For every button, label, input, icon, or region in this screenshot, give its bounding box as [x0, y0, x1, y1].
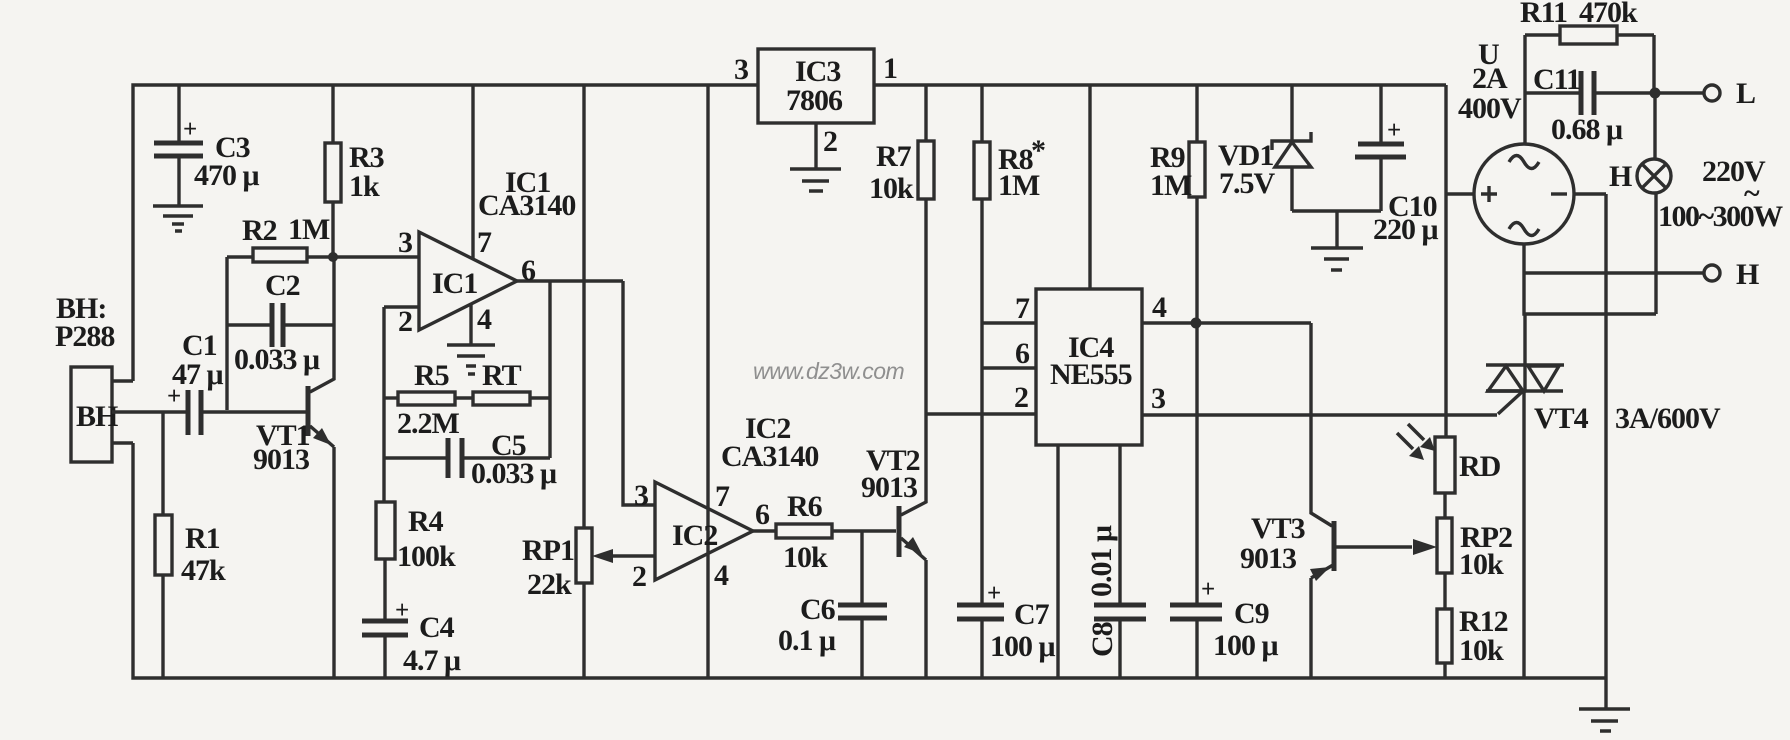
triac VT4 3A/600V — [1486, 314, 1721, 678]
IC1 pin 4 wire — [471, 303, 492, 345]
svg-text:VT3: VT3 — [1251, 512, 1305, 545]
IC IC3 7806 regulator — [734, 49, 897, 158]
IC3 pin 2 wire — [814, 123, 817, 169]
node L junction — [1650, 88, 1661, 99]
IC1 pin 6 output wire — [517, 254, 623, 287]
wire bridge - to neutral column — [1574, 192, 1606, 195]
potentiometer RP1 22k — [522, 85, 592, 678]
svg-text:4: 4 — [477, 303, 492, 336]
svg-text:VT4: VT4 — [1534, 402, 1589, 435]
svg-text:NE555: NE555 — [1050, 358, 1132, 391]
svg-text:3: 3 — [634, 479, 648, 512]
resistor R5 2.2M — [384, 359, 460, 440]
svg-text:R4: R4 — [408, 505, 444, 538]
svg-text:RP1: RP1 — [522, 534, 574, 567]
terminal H — [1524, 258, 1759, 291]
capacitor C11 0.68u — [1525, 63, 1704, 146]
svg-text:C11: C11 — [1533, 63, 1580, 96]
capacitor C4 4.7u — [362, 597, 461, 678]
capacitor C1 47u — [167, 329, 306, 435]
resistor R11 470k — [1520, 0, 1654, 93]
svg-text:100 μ: 100 μ — [990, 630, 1056, 663]
svg-text:7: 7 — [1015, 292, 1030, 325]
svg-text:R1: R1 — [185, 522, 220, 555]
svg-text:1M: 1M — [288, 213, 330, 246]
capacitor C3 470u — [154, 85, 260, 206]
wire feedback right leg — [548, 281, 551, 458]
capacitor C8 0.01u — [1085, 525, 1146, 678]
RP1 wiper arrow wire — [592, 549, 655, 563]
svg-text:C8: C8 — [1086, 622, 1119, 657]
ground IC1 pin4 — [447, 345, 495, 374]
svg-text:0.033 μ: 0.033 μ — [471, 457, 557, 490]
capacitor C10 220u — [1355, 85, 1439, 246]
svg-text:7.5V: 7.5V — [1219, 167, 1276, 200]
svg-text:C9: C9 — [1234, 597, 1269, 630]
svg-text:10k: 10k — [1459, 548, 1504, 581]
svg-text:2: 2 — [632, 560, 646, 593]
photoresistor RD — [1435, 437, 1501, 518]
svg-text:3: 3 — [398, 226, 412, 259]
svg-text:0.01 μ: 0.01 μ — [1085, 525, 1118, 597]
svg-text:R2: R2 — [242, 214, 277, 247]
wire IC2 supply/ground column — [706, 85, 709, 678]
svg-text:1M: 1M — [998, 169, 1040, 202]
svg-text:H: H — [1609, 160, 1632, 193]
svg-text:+: + — [1201, 576, 1214, 603]
ground IC3 — [790, 169, 841, 191]
svg-text:10k: 10k — [1459, 634, 1504, 667]
label IC2 title — [721, 412, 818, 473]
svg-text:3: 3 — [734, 53, 748, 86]
resistor R2 1M — [227, 213, 333, 262]
IC4 pin 4 wire — [1142, 291, 1311, 324]
svg-text:2: 2 — [1014, 381, 1028, 414]
resistor R8* 1M — [974, 85, 1045, 605]
node R2/R3/IC1 junction — [328, 252, 338, 262]
svg-text:4: 4 — [1152, 291, 1167, 324]
svg-text:9013: 9013 — [861, 471, 917, 504]
wire right DC feed column to RD — [1444, 85, 1447, 437]
IC4 pin 6 wire — [982, 337, 1036, 370]
svg-text:RD: RD — [1459, 450, 1501, 483]
svg-text:7806: 7806 — [786, 84, 843, 117]
RP2 wiper arrow from VT3 base — [1334, 539, 1437, 555]
capacitor C2 0.033u — [227, 269, 334, 376]
svg-text:C6: C6 — [800, 593, 836, 626]
svg-text:H: H — [1736, 258, 1759, 291]
capacitor C9 100u — [1170, 576, 1279, 678]
potentiometer RP2 10k — [1437, 518, 1512, 609]
svg-text:4: 4 — [714, 559, 729, 592]
svg-text:3: 3 — [1151, 382, 1165, 415]
svg-text:2: 2 — [398, 305, 412, 338]
terminal L — [1704, 77, 1755, 110]
svg-text:2.2M: 2.2M — [397, 407, 460, 440]
svg-text:1M: 1M — [1150, 169, 1192, 202]
svg-text:www.dz3w.com: www.dz3w.com — [753, 358, 905, 384]
IC2 pin 3 wire from IC1 output — [623, 281, 655, 512]
svg-text:220 μ: 220 μ — [1373, 213, 1439, 246]
resistor R4 100k — [376, 502, 456, 621]
IC1 pin 3 wire — [333, 226, 419, 259]
svg-text:R6: R6 — [787, 490, 823, 523]
svg-text:IC2: IC2 — [672, 519, 717, 552]
svg-text:7: 7 — [715, 480, 730, 513]
capacitor C6 0.1u — [778, 531, 887, 678]
IC4 pin 2 wire — [926, 381, 1036, 414]
svg-text:C4: C4 — [419, 611, 455, 644]
IC1 pin 7 supply wire — [473, 85, 492, 259]
svg-text:10k: 10k — [783, 541, 828, 574]
transistor VT3 9013 — [1240, 323, 1334, 678]
svg-text:1: 1 — [883, 52, 897, 85]
resistor RT — [455, 359, 550, 405]
ground VD1/C10 — [1311, 248, 1363, 270]
wire ground bottom bus — [133, 443, 1606, 678]
svg-text:6: 6 — [1015, 337, 1030, 370]
IC4 pin 8 top wire — [1088, 85, 1091, 289]
resistor R1 47k — [155, 412, 226, 678]
svg-text:0.68 μ: 0.68 μ — [1551, 113, 1623, 146]
wire IC1 feedback left leg — [382, 307, 385, 502]
lamp H — [1609, 93, 1671, 314]
resistor R3 1k — [325, 85, 384, 256]
resistor R9 1M — [1150, 85, 1205, 605]
svg-text:*: * — [1031, 134, 1045, 167]
svg-text:3A/600V: 3A/600V — [1615, 402, 1721, 435]
svg-text:9013: 9013 — [253, 443, 309, 476]
svg-text:9013: 9013 — [1240, 542, 1296, 575]
resistor R12 10k — [1437, 605, 1508, 678]
wire R2/C2 left leg — [225, 257, 228, 410]
wire neutral column — [1604, 194, 1607, 709]
svg-text:2: 2 — [823, 125, 837, 158]
zener diode VD1 7.5V — [1218, 85, 1311, 211]
svg-text:R11: R11 — [1520, 0, 1567, 29]
ground mains right — [1579, 709, 1630, 731]
IC4 pin 3 output wire to triac gate — [1142, 382, 1497, 415]
svg-text:C7: C7 — [1014, 598, 1050, 631]
wire bridge + input — [1446, 192, 1474, 195]
svg-text:CA3140: CA3140 — [478, 189, 575, 222]
svg-text:CA3140: CA3140 — [721, 440, 818, 473]
svg-text:0.1 μ: 0.1 μ — [778, 624, 836, 657]
svg-text:22k: 22k — [527, 568, 572, 601]
svg-text:RT: RT — [482, 359, 522, 392]
svg-text:7: 7 — [477, 226, 492, 259]
wire VD1/C10 common — [1292, 211, 1381, 248]
svg-text:10k: 10k — [869, 172, 914, 205]
svg-text:+: + — [1387, 117, 1400, 144]
svg-text:4.7 μ: 4.7 μ — [403, 644, 461, 677]
svg-text:47k: 47k — [181, 554, 226, 587]
sensor BH P288 — [55, 292, 118, 462]
wire bridge bottom AC — [1524, 244, 1656, 314]
op-amp U IC1 CA3140 — [419, 232, 517, 330]
svg-text:C2: C2 — [265, 269, 300, 302]
IC1 pin 2 wire — [384, 305, 419, 338]
svg-text:400V: 400V — [1458, 92, 1522, 125]
svg-text:47 μ: 47 μ — [172, 358, 224, 391]
svg-text:IC1: IC1 — [432, 267, 477, 300]
svg-text:R7: R7 — [876, 140, 912, 173]
svg-text:P288: P288 — [55, 320, 114, 353]
svg-text:0.033 μ: 0.033 μ — [234, 343, 320, 376]
IC4 pin 7 wire — [982, 292, 1036, 325]
svg-text:BH: BH — [76, 400, 118, 433]
wire +9V top bus — [133, 85, 1446, 381]
capacitor C7 100u — [957, 580, 1056, 678]
IC IC4 NE555 — [1036, 289, 1142, 445]
wire bridge top AC — [1523, 35, 1526, 144]
label 220V 100~300W — [1658, 155, 1783, 233]
label IC1 title — [478, 166, 575, 222]
light arrows at RD — [1397, 424, 1435, 460]
svg-text:+: + — [183, 116, 196, 143]
svg-text:100k: 100k — [397, 540, 456, 573]
svg-text:470 μ: 470 μ — [194, 159, 260, 192]
node pin4/R9 junction — [1191, 318, 1202, 329]
svg-text:6: 6 — [755, 498, 770, 531]
svg-text:1k: 1k — [349, 170, 380, 203]
wire BH pins — [112, 381, 187, 443]
ground C3 — [153, 206, 203, 231]
svg-text:6: 6 — [521, 254, 536, 287]
bridge rectifier U 2A 400V — [1458, 38, 1574, 244]
svg-text:L: L — [1736, 77, 1755, 110]
svg-text:2A: 2A — [1472, 62, 1508, 95]
transistor VT2 9013 — [861, 415, 926, 678]
svg-text:470k: 470k — [1579, 0, 1638, 29]
resistor R6 10k — [753, 490, 896, 574]
svg-text:100 μ: 100 μ — [1213, 629, 1279, 662]
svg-text:100~300W: 100~300W — [1658, 200, 1783, 233]
svg-text:+: + — [987, 580, 1000, 607]
transistor VT1 9013 — [253, 256, 334, 678]
IC4 pin 1 ground wire — [1056, 445, 1059, 678]
IC4 pin 5 wire — [1118, 445, 1121, 605]
op-amp U IC2 CA3140 — [655, 482, 753, 580]
svg-text:+: + — [395, 597, 408, 624]
capacitor C5 0.033u — [384, 429, 557, 490]
svg-text:R5: R5 — [414, 359, 449, 392]
resistor R7 10k — [869, 85, 934, 415]
